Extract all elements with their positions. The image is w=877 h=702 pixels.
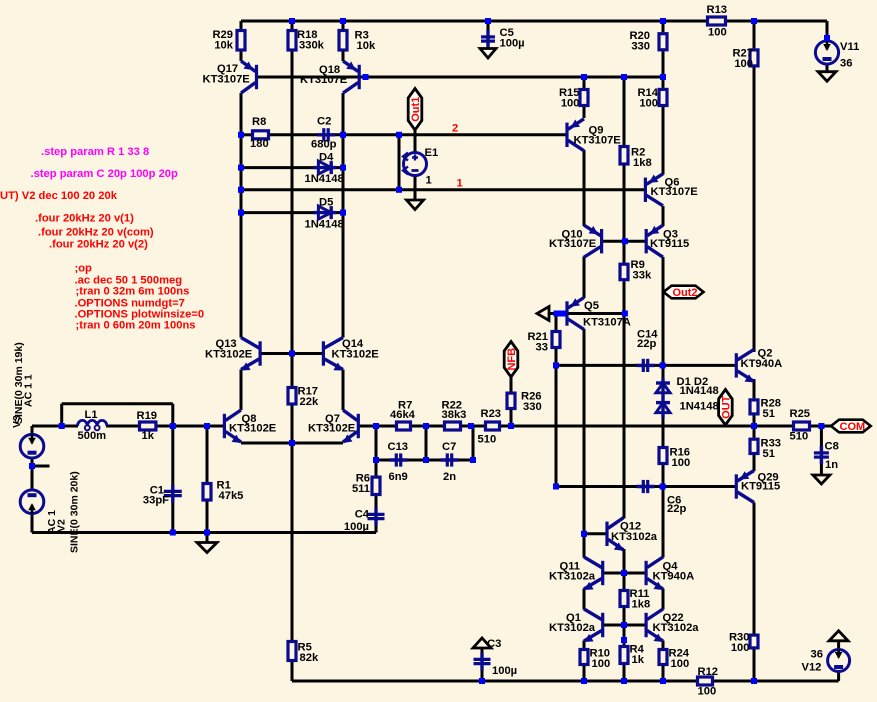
resistor R15 (559, 87, 588, 110)
svg-text:36: 36 (811, 649, 823, 661)
svg-text:KT3102a: KT3102a (611, 531, 658, 543)
wire top positive rail (241, 20, 706, 23)
wire Q7 base node down (375, 426, 378, 460)
wire input bypass top (62, 402, 173, 405)
resistor R12 (698, 666, 719, 698)
junction at (624.9,313.5) (622, 311, 628, 317)
svg-text:1k: 1k (142, 430, 155, 442)
svg-text:V3: V3 (11, 415, 23, 428)
wire R5 to bottom rail (291, 662, 294, 681)
junction at (624,640) (621, 637, 627, 643)
junction at (584,533.8) (581, 531, 587, 537)
wire R22/R23 node down (472, 426, 475, 460)
voltage source V2 (20, 490, 44, 514)
wire bottom negative rail (292, 680, 696, 683)
svg-text:KT3107E: KT3107E (651, 186, 699, 198)
svg-text:51: 51 (763, 448, 775, 460)
junction at (754,681) (751, 678, 757, 684)
junction at (399,189.8) (396, 187, 402, 193)
wire C1 top lead (171, 426, 174, 489)
svg-text:330k: 330k (299, 40, 325, 52)
junction at (663,681) (660, 678, 666, 684)
wire C5 to ground (487, 43, 490, 49)
transistor Q29 (736, 471, 780, 503)
svg-text:511: 511 (352, 483, 370, 495)
transistor Q12 (607, 518, 658, 551)
junction at (754,426) (751, 423, 757, 429)
svg-text:2n: 2n (443, 471, 456, 483)
junction at (624,625) (621, 622, 627, 628)
wire bottom rail right of R12 (714, 680, 839, 683)
wire V12 top lead to flag (837, 641, 840, 650)
wire R9 down to Q12 collector (623, 281, 626, 518)
svg-text:E1: E1 (425, 147, 439, 159)
wire Q5 base node to R21 (555, 314, 558, 331)
wire R1 bottom lead (206, 502, 209, 533)
svg-text:KT940A: KT940A (741, 358, 783, 370)
svg-text:NFB: NFB (506, 348, 518, 371)
svg-text:330: 330 (523, 401, 542, 413)
wire C1 bottom lead (171, 499, 174, 533)
wire Q1 emitter to R10 (583, 641, 586, 649)
svg-text:6n9: 6n9 (389, 471, 408, 483)
svg-text:KT3107E: KT3107E (574, 135, 622, 147)
capacitor C13 (388, 441, 409, 483)
ground at C5 (480, 49, 496, 59)
wire rail to R18 (291, 21, 294, 29)
wire C2 to Q9 base (net 2) (332, 133, 567, 136)
resistor R11 (620, 588, 650, 611)
wire R2 to R9 (623, 166, 626, 263)
wire R21 to C6 row (555, 349, 558, 487)
power flag above V12 (829, 631, 848, 641)
wire V11 top lead (826, 21, 829, 41)
svg-text:100: 100 (592, 658, 611, 670)
svg-text:1: 1 (426, 175, 432, 187)
net flag NFB (504, 342, 518, 378)
wire Q2 emitter to R28 (753, 379, 756, 398)
capacitor C2 (311, 116, 337, 151)
wire rail to R27 (753, 21, 756, 48)
svg-text:36: 36 (840, 58, 852, 70)
transistor Q18 (300, 61, 359, 93)
svg-text:KT9115: KT9115 (741, 481, 780, 493)
wire rail to R20 (662, 21, 665, 32)
svg-text:46k4: 46k4 (390, 409, 416, 421)
svg-text:KT3107E: KT3107E (549, 238, 597, 250)
wire V12 bottom lead (837, 671, 840, 681)
svg-text:L1: L1 (85, 409, 98, 421)
junction at (241,167.6) (238, 165, 244, 171)
voltage source V11 (815, 41, 838, 64)
svg-text:;tran 0 60m 20m 100ns: ;tran 0 60m 20m 100ns (76, 320, 196, 332)
diode D4 (305, 152, 344, 186)
wire Q29 collector to R30 (753, 503, 756, 634)
diode D5 (305, 197, 344, 231)
svg-text:KT3107A: KT3107A (583, 317, 631, 329)
wire Q22 emitter to R24 (662, 641, 665, 649)
junction at (172.8,532.5) (170, 530, 176, 536)
junction at (624,681) (621, 678, 627, 684)
svg-text:KT3102E: KT3102E (205, 349, 253, 361)
wire D4 anode lead (241, 166, 318, 169)
wire V2 bottom lead (31, 514, 34, 533)
wire row77 to R14 (662, 77, 665, 88)
resistor R6 (352, 473, 380, 496)
wire R8 left lead (241, 133, 251, 136)
ground at V11 (818, 72, 836, 82)
resistor R3 (339, 30, 376, 53)
wire Q13 emitter to Q8 collector (240, 370, 243, 411)
svg-text:KT3102a: KT3102a (549, 571, 596, 583)
junction at (471,426) (468, 423, 474, 429)
wire R7/R22 node down (425, 426, 428, 460)
wire Q12 emitter to R11 (623, 549, 626, 589)
wire to C13 (376, 459, 395, 462)
svg-text:R13: R13 (707, 4, 728, 16)
wire V11 to ground (826, 64, 829, 72)
wire R14 to Q6 emitter (662, 107, 665, 175)
resistor R22 (442, 400, 467, 431)
resistor R7 (390, 400, 416, 431)
svg-text:100µ: 100µ (500, 38, 525, 50)
wire C6 to Q29 base (650, 485, 737, 488)
junction at (207,532.5) (204, 530, 210, 536)
svg-text:22p: 22p (637, 338, 656, 350)
junction at (426,460) (423, 457, 429, 463)
diodes D1 D2 labels (677, 376, 719, 413)
resistor R4 (620, 644, 645, 667)
wire Q5 collector down to Q12 base node (583, 329, 586, 534)
wire to C6 (556, 485, 642, 488)
junction at (61.7,426) (59, 423, 65, 429)
resistor R20 (629, 30, 667, 53)
resistor R27 (732, 48, 758, 71)
wire input bypass left leg (60, 404, 63, 426)
wire Q17 collector to Q13 collector (240, 93, 243, 338)
capacitor C1 (143, 485, 182, 507)
resistor R2 (620, 147, 652, 170)
junction at (556.5,313.5) (554, 311, 560, 317)
wire base row Q17-Q18 to R14/R20 node (257, 76, 664, 79)
svg-text:R12: R12 (698, 666, 719, 678)
wire emitter row down to R5 (291, 443, 294, 640)
svg-text:.four 20kHz 20 v(2): .four 20kHz 20 v(2) (49, 239, 148, 251)
capacitor C6 (637, 480, 687, 515)
svg-text:38k3: 38k3 (442, 409, 467, 421)
svg-text:R25: R25 (790, 408, 811, 420)
transistor Q11 (549, 557, 603, 590)
resistor R5 (288, 642, 319, 665)
spice directive block op/ac/tran/options (75, 263, 205, 332)
svg-text:C2: C2 (317, 116, 331, 128)
junction at (556,365.4) (553, 362, 559, 368)
junction at (662.6,365.4) (660, 362, 666, 368)
junction at (292,443) (289, 440, 295, 446)
wire C13 to C7 (404, 459, 446, 462)
svg-text:100µ: 100µ (344, 521, 369, 533)
junction V11 lead (824, 35, 830, 41)
svg-text:1k: 1k (632, 654, 645, 666)
wire D5 cathode lead (331, 211, 343, 214)
resistor R30 (729, 632, 758, 655)
net flag Out2 (664, 286, 704, 299)
svg-text:C13: C13 (388, 441, 409, 453)
wire input bypass right leg (171, 404, 174, 426)
wire R17 to emitter row (291, 406, 294, 444)
wire L1 to R19 (106, 425, 138, 428)
wire Q5 base row to R9 column (549, 312, 625, 315)
wire Q13-Q14 base row (260, 352, 323, 355)
wire R6 top lead (375, 460, 378, 476)
svg-text:R19: R19 (137, 410, 158, 422)
junction at (241,189.8) (238, 187, 244, 193)
wire D5 anode lead (241, 211, 318, 214)
wire top rail right of R13 (727, 20, 827, 23)
wire C7 right lead (454, 459, 473, 462)
svg-text:V12: V12 (802, 662, 822, 674)
resistor R21 (527, 331, 560, 354)
transistor Q3 (646, 225, 689, 257)
wire Out1 flag to E1 (414, 130, 417, 153)
resistor R10 (580, 648, 610, 671)
svg-text:33k: 33k (633, 270, 652, 282)
svg-text:KT3107E: KT3107E (300, 74, 348, 86)
svg-text:1N4148: 1N4148 (305, 219, 344, 231)
wire Q14 emitter to Q7 collector (342, 370, 345, 411)
svg-text:C8: C8 (825, 441, 839, 453)
transistor Q22 (646, 609, 699, 642)
ground at R1 (197, 543, 217, 553)
wire row77 to R2 (623, 77, 626, 145)
wire R29 to Q17 emitter (240, 52, 243, 62)
transistor Q1 (549, 609, 603, 642)
svg-text:C7: C7 (442, 441, 456, 453)
capacitor C3 (474, 638, 518, 677)
junction at (482,681) (479, 678, 485, 684)
junction at (511,426) (508, 423, 514, 429)
transistor Q4 (646, 557, 694, 590)
wire base node to R17 (291, 354, 294, 387)
svg-text:.four 20kHz 20 v(com): .four 20kHz 20 v(com) (38, 227, 154, 239)
wire C4 bottom lead (375, 522, 378, 533)
svg-text:Out2: Out2 (672, 287, 697, 299)
svg-text:Q5: Q5 (584, 300, 599, 312)
wire D1 to D2 (662, 393, 665, 403)
ground at C8 (813, 475, 830, 484)
svg-text:82k: 82k (300, 652, 319, 664)
wire D2 to R16 across output row (662, 413, 665, 446)
inductor L1 (78, 409, 107, 442)
wire C3 flag stem (481, 648, 484, 655)
net flag Out1 (408, 89, 422, 131)
svg-text:100: 100 (672, 457, 691, 469)
svg-text:KT3102E: KT3102E (332, 349, 380, 361)
wire R22 to R23 (462, 425, 484, 428)
capacitor C5 (481, 27, 525, 50)
svg-text:V11: V11 (840, 41, 859, 53)
junction at (821.4,426) (818, 423, 824, 429)
svg-text:22p: 22p (667, 503, 686, 515)
wire Q11 emitter to Q1 collector (583, 589, 586, 610)
junction at (241,134.8) (238, 132, 244, 138)
wire Q10 collector to Q5 emitter (583, 257, 586, 299)
wire Q12 base lead (584, 532, 607, 535)
transistor Q13 (205, 338, 260, 371)
svg-text:KT3102a: KT3102a (653, 622, 700, 634)
wire R20 to row77 (662, 51, 665, 77)
svg-text:100: 100 (734, 58, 753, 70)
wire R7 to R22 (412, 425, 443, 428)
resistor R28 (750, 398, 781, 421)
junction at (32,466) (29, 463, 35, 469)
wire bottom left common row (32, 531, 376, 534)
svg-text:.step param C 20p 100p 20p: .step param C 20p 100p 20p (31, 168, 179, 180)
svg-text:1N4148: 1N4148 (680, 401, 719, 413)
svg-text:COM: COM (840, 421, 866, 433)
ground flag at Q5 base (537, 307, 549, 321)
wire R8 to C2 (270, 133, 321, 136)
junction at (584,77) (581, 74, 587, 80)
wire V3 to V2 (31, 458, 34, 490)
wire E1 to ground (414, 175, 417, 200)
svg-text:OUT: OUT (720, 395, 732, 419)
resistor R24 (659, 648, 690, 671)
wire D4 cathode lead (331, 166, 343, 169)
power flag above C3 (473, 638, 491, 648)
diode D2 (656, 398, 670, 418)
wire R11 to R4 (623, 608, 626, 645)
svg-text:33: 33 (536, 342, 548, 354)
wire Q5 ground stub (549, 312, 556, 315)
junction at (376,460) (373, 457, 379, 463)
resistor R29 (212, 29, 245, 52)
junction at (624.9,241.2) (622, 238, 628, 244)
wire R6 to C4 (375, 496, 378, 512)
wire R33 to Q29 emitter (753, 455, 756, 471)
svg-text:C4: C4 (355, 509, 370, 521)
svg-text:100: 100 (639, 98, 658, 110)
junction at (399,134.8) (396, 132, 402, 138)
svg-text:2: 2 (452, 123, 458, 135)
svg-text:R8: R8 (252, 116, 266, 128)
net flag COM (831, 420, 871, 433)
wire row77 to R15 (583, 77, 586, 88)
junction at (292,353.5) (289, 351, 295, 357)
svg-text:KT3102a: KT3102a (549, 622, 596, 634)
wire Q6 collector to Q3 emitter (662, 206, 665, 226)
wire R16 to C6 row (662, 465, 665, 487)
wire E1 control pins (398, 135, 401, 190)
svg-text:10k: 10k (357, 40, 376, 52)
junction at (473,460) (470, 457, 476, 463)
svg-text:KT3102E: KT3102E (229, 423, 277, 435)
svg-text:1k8: 1k8 (632, 599, 651, 611)
voltage source V3 (20, 434, 44, 458)
ground at E1 (407, 200, 424, 210)
junction at (365.5,77) (363, 74, 369, 80)
wire to ground G1 (206, 533, 209, 543)
resistor R17 (288, 386, 319, 409)
wire R15 to Q9 emitter (583, 107, 586, 119)
wire rail to R3 (342, 21, 345, 29)
svg-text:500m: 500m (78, 430, 107, 442)
capacitor C14 (637, 329, 659, 373)
junction at (343,21) (340, 18, 346, 24)
svg-text:KT3107E: KT3107E (203, 74, 251, 86)
wire R21 node to C14 (556, 364, 642, 367)
wire rail to C5 (487, 21, 490, 36)
junction at (343,134.8) (340, 132, 346, 138)
wire Q10-Q3 base row (602, 240, 647, 243)
wire rail to R29 (240, 21, 243, 29)
resistor R19 (137, 410, 158, 442)
junction at (488,21) (485, 18, 491, 24)
svg-text:V2: V2 (56, 519, 68, 532)
wire R25 to COM flag (811, 425, 831, 428)
wire R10 to bottom rail (583, 666, 586, 681)
wire R27 down to Q2 collector (753, 67, 756, 352)
svg-text:33pF: 33pF (143, 495, 169, 507)
junction at (624,573) (621, 570, 627, 576)
resistor R25 (790, 408, 811, 443)
wire R23 to R25 (output node) (501, 425, 792, 428)
wire V3 top lead (31, 426, 34, 434)
resistor R26 (507, 391, 542, 414)
transistor Q14 (323, 338, 379, 371)
svg-text:22k: 22k (300, 396, 319, 408)
svg-text:1N4148: 1N4148 (305, 173, 344, 185)
svg-text:10k: 10k (214, 40, 233, 52)
resistor R23 (478, 408, 502, 446)
transistor Q9 (567, 119, 621, 151)
wire output to C8 (820, 426, 823, 450)
wire Q7 base to R7 (358, 425, 395, 428)
wire R24 to bottom rail (662, 666, 665, 681)
wire R30 to bottom rail (753, 649, 756, 681)
svg-text:D4: D4 (319, 152, 334, 164)
transistor Q10 (549, 225, 602, 257)
V11 labels (840, 41, 859, 70)
wire C6 row to Q4 collector (662, 487, 665, 558)
svg-text:KT9115: KT9115 (650, 238, 689, 250)
wire Q1-Q22 base row (603, 624, 646, 627)
svg-text:180: 180 (250, 138, 269, 150)
svg-text:680p: 680p (311, 139, 337, 151)
wire NFB flag to R26 (510, 377, 513, 392)
wire C14 to Q2 base (650, 364, 737, 367)
wire Q3 collector to C14 row (662, 257, 665, 365)
voltage source V12 (828, 650, 850, 672)
svg-text:R23: R23 (481, 408, 502, 420)
svg-text:D5: D5 (319, 197, 333, 209)
wire to D1 cathode (662, 365, 665, 383)
svg-text:SINE(0 30m 20k): SINE(0 30m 20k) (69, 471, 81, 553)
resistor R1 (203, 480, 243, 503)
junction at (562.5,313.5) (560, 311, 566, 317)
transistor Q2 (736, 348, 782, 383)
wire to Q11 collector (583, 534, 586, 558)
resistor R16 (659, 447, 690, 470)
V12 labels (802, 649, 823, 674)
transistor Q8 (224, 410, 276, 443)
junction at (241,212.6) (238, 210, 244, 216)
controlled source E1 (403, 147, 438, 187)
junction at (663,77) (660, 74, 666, 80)
junction at (624,77) (621, 74, 627, 80)
svg-text:1: 1 (457, 178, 463, 190)
transistor Q6 (645, 174, 698, 206)
